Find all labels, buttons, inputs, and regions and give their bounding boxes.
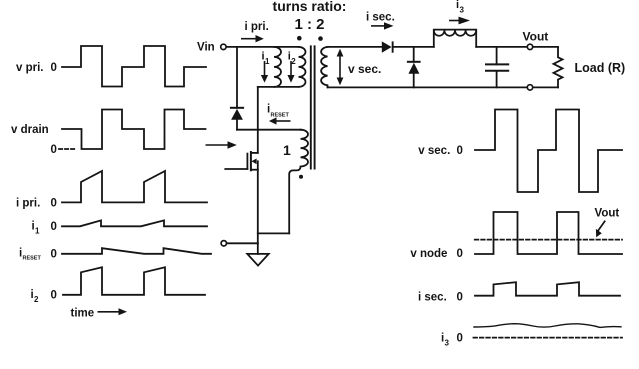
mosfet Q1 drain contact — [251, 152, 258, 154]
svg-text:i sec.: i sec. — [366, 11, 395, 23]
arrow Vout pointer — [597, 220, 606, 232]
waveform i3 ripple trace — [474, 324, 621, 328]
svg-text:0: 0 — [51, 144, 57, 156]
svg-text:Load (R): Load (R) — [575, 61, 626, 75]
node dot secondary phase — [318, 36, 323, 41]
svg-text:0: 0 — [457, 248, 463, 260]
arrow iRESET left — [277, 120, 291, 122]
svg-text:0: 0 — [51, 249, 57, 261]
wire primary bottoms rail — [258, 86, 299, 88]
wire inductor to load top rail — [476, 46, 558, 48]
transformer core — [311, 46, 315, 168]
primary winding B (i2) — [299, 47, 306, 87]
svg-text:0: 0 — [51, 197, 57, 209]
svg-text:v sec.: v sec. — [348, 62, 381, 76]
arrow v sec. double vertical — [339, 54, 341, 80]
capacitor C branch — [496, 47, 498, 88]
node dot primary phase — [297, 36, 302, 41]
mosfet Q1 channel bar — [250, 152, 252, 170]
svg-text:1 : 2: 1 : 2 — [294, 16, 324, 33]
primary winding A (i1) — [274, 47, 281, 87]
arrow time axis — [98, 311, 119, 313]
svg-text:turns ratio:: turns ratio: — [273, 0, 347, 14]
i3 zero dashes — [474, 337, 623, 339]
waveform iRESET trace — [62, 248, 211, 254]
arrow gate drive indicator — [206, 144, 228, 146]
resistor Load (R) — [554, 47, 563, 88]
svg-text:v node: v node — [410, 248, 447, 260]
wire freewheel diode stubs — [413, 47, 415, 88]
waveform i pri. trace — [62, 171, 207, 202]
wire rectifier to inductor — [394, 46, 434, 48]
svg-text:1: 1 — [283, 142, 291, 158]
wire secondary top to rectifier — [328, 46, 382, 48]
svg-text:0: 0 — [51, 290, 57, 302]
v drain zero dashes — [59, 148, 76, 150]
wire secondary bottom rail — [328, 86, 559, 88]
inductor L3 scallops — [434, 30, 476, 36]
svg-text:1: 1 — [35, 227, 40, 236]
wire ground rail from terminal — [226, 242, 257, 244]
waveform i sec. trace — [475, 282, 620, 296]
svg-text:0: 0 — [51, 221, 57, 233]
wire reset return — [258, 232, 289, 234]
terminal Vin — [221, 44, 226, 49]
wire Vin top rail to primary — [226, 46, 298, 48]
svg-text:RESET: RESET — [23, 256, 42, 262]
svg-text:2: 2 — [34, 295, 39, 304]
waveform v node trace — [475, 212, 622, 254]
svg-text:v drain: v drain — [11, 124, 49, 136]
v node Vout dashed level — [475, 239, 622, 241]
svg-text:RESET: RESET — [271, 112, 290, 118]
svg-text:0: 0 — [457, 333, 463, 345]
waveform v drain trace — [62, 110, 206, 150]
arrow i sec. — [371, 25, 384, 27]
mosfet Q1 source/body arrow — [251, 159, 256, 165]
waveform v pri. trace — [62, 46, 206, 87]
arrow i3 — [449, 20, 459, 22]
terminal ground left — [221, 241, 226, 246]
svg-text:3: 3 — [445, 339, 450, 348]
svg-text:0: 0 — [457, 145, 463, 157]
mosfet Q1 source contact — [251, 169, 258, 171]
svg-text:2: 2 — [291, 57, 296, 66]
svg-text:0: 0 — [51, 62, 57, 74]
ground symbol triangle — [247, 254, 268, 266]
terminal Vout top — [527, 44, 532, 49]
svg-text:Vin: Vin — [197, 41, 215, 53]
wire drain vertical — [257, 87, 259, 153]
svg-text:1: 1 — [265, 57, 270, 66]
ground stub — [257, 243, 259, 254]
diode D1 cathode bar — [392, 41, 394, 52]
svg-text:0: 0 — [457, 291, 463, 303]
diode D freewheel cathode bar — [408, 61, 420, 63]
svg-text:i pri.: i pri. — [16, 197, 40, 209]
arrow i1 down — [264, 61, 266, 76]
svg-text:Vout: Vout — [595, 208, 620, 220]
arrow i2 down — [290, 61, 292, 76]
reset winding (1 turn) — [289, 130, 308, 234]
svg-text:Vout: Vout — [523, 29, 549, 43]
svg-text:v pri.: v pri. — [16, 62, 43, 74]
diode D reset (anode bottom, cathode bar top) — [231, 107, 243, 109]
diode D reset triangle — [231, 109, 243, 120]
diode D1 rectifier triangle — [382, 41, 392, 52]
mosfet Q1 gate lead — [225, 168, 247, 170]
terminal Vout bottom — [527, 85, 532, 90]
diode D2 freewheel triangle — [408, 63, 419, 74]
wire reset-diode branch — [236, 47, 238, 108]
secondary winding — [321, 47, 327, 88]
mosfet Q1 gate bar — [246, 154, 248, 169]
arrow i pri. — [241, 38, 256, 40]
waveform i2 trace — [63, 267, 205, 295]
inductor L3 legs and bar — [434, 30, 476, 47]
svg-text:i pri.: i pri. — [245, 21, 269, 33]
svg-text:v sec.: v sec. — [418, 145, 450, 157]
waveform i1 trace — [62, 220, 207, 226]
mosfet Q1 source lead down — [257, 161, 259, 243]
svg-text:time: time — [71, 308, 95, 320]
capacitor C plates — [486, 64, 508, 70]
wire iRESET horizontal to reset winding — [237, 129, 301, 131]
svg-text:i sec.: i sec. — [418, 291, 447, 303]
svg-text:3: 3 — [460, 6, 465, 15]
waveform v sec. trace — [475, 110, 622, 193]
node dot reset phase — [299, 175, 303, 179]
